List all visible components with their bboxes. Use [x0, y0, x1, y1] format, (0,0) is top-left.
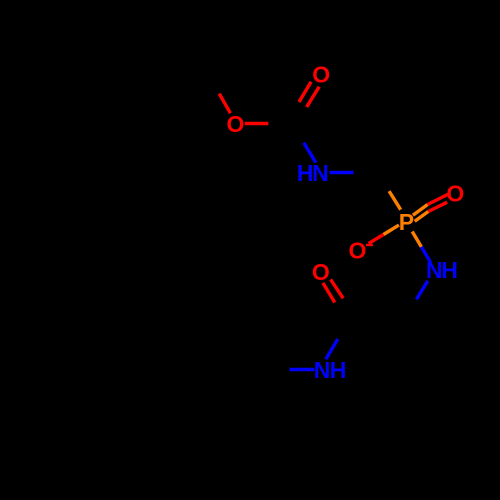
- svg-text:N: N: [314, 357, 331, 383]
- wire P-O(-) bond, O half (red): [369, 235, 384, 244]
- wire C-half of O(ester)-C bond, black: [268, 122, 291, 125]
- svg-text:O: O: [446, 181, 464, 207]
- wire P=O double bond line B, P half (orange): [415, 212, 429, 222]
- wire C-half of N-C(amide) bond, black: [338, 320, 351, 340]
- wire P-N bond, N half (blue): [421, 247, 430, 262]
- wire CH2-C(amide) bond, black: [351, 318, 405, 320]
- wire P=O double bond line B, O half (red): [428, 202, 447, 211]
- wire P=O double bond line A, O half (red): [428, 194, 448, 204]
- wire CH2-P bond, P half (orange): [389, 191, 401, 210]
- wire ester O-CH2(benzyl) bond, O half (red): [219, 94, 230, 114]
- wire phenyl-CH2 (benzyl), black: [151, 74, 208, 75]
- wire carbamate C=O double bond line B, O half (red): [307, 87, 320, 107]
- svg-text:P: P: [399, 209, 414, 235]
- wire C-half of amide C=O line B, black: [343, 298, 356, 317]
- svg-text:N: N: [426, 257, 443, 283]
- wire C-half of C=O line A, black: [287, 102, 299, 122]
- wire amide C=O double bond line B, O half (red): [331, 279, 344, 298]
- benzyl phenyl ring (black, invisible on black bg): [149, 75, 152, 132]
- svg-text:O: O: [348, 238, 366, 264]
- wire P=O double bond line A, P half (orange): [413, 205, 428, 216]
- wire amide C=O double bond line A, O half (red): [323, 283, 335, 303]
- minus charge on O: [366, 244, 373, 246]
- anilide phenyl ring (black, invisible on black bg): [263, 370, 266, 427]
- svg-text:H: H: [297, 160, 314, 186]
- wire N-CH2 bond, N half (blue): [416, 281, 427, 300]
- svg-text:O: O: [312, 259, 330, 285]
- wire C-half of N-C(carbamate) bond, black: [292, 124, 304, 143]
- wire carbamate N-C bond, N half (blue): [304, 143, 316, 163]
- wire P-O(-) bond, P half (orange): [384, 225, 399, 234]
- wire N-CH2 bond, N half (blue): [330, 171, 354, 174]
- wire carbamate C=O double bond line A, O half (red): [299, 82, 311, 102]
- wire ester O-C bond, O half (red): [245, 122, 269, 125]
- wire C-half of N-phenyl bond, black: [265, 368, 290, 371]
- wire C-half of CH2-P bond, black: [378, 173, 390, 192]
- svg-text:N: N: [312, 160, 329, 186]
- wire N-phenyl bond, N half (blue): [290, 368, 315, 371]
- svg-text:O: O: [226, 111, 244, 137]
- wire anilide N-C bond, N half (blue): [326, 339, 338, 359]
- svg-text:H: H: [441, 257, 458, 283]
- wire C-half of amide C=O line A, black: [335, 303, 347, 323]
- wire C-half of C=O line B, black: [295, 107, 307, 127]
- wire C-half of N-CH2 bond, black: [405, 299, 416, 318]
- wire C-half of N-CH2 bond, black: [354, 171, 378, 174]
- wire P-N bond, P half (orange): [412, 232, 421, 247]
- wire C-half of O(ester)-CH2 bond, black: [208, 74, 219, 94]
- svg-text:O: O: [312, 62, 330, 88]
- svg-text:H: H: [330, 357, 347, 383]
